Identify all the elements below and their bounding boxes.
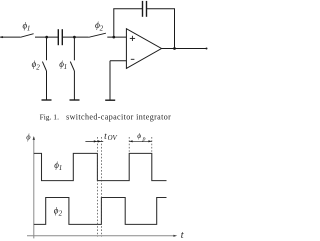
dimension tOV arrow — [85, 140, 103, 142]
input terminal Vin — [1, 36, 3, 38]
dashed line at phi2 rise — [100, 137, 102, 237]
wire feedback down to output node — [174, 9, 176, 49]
wire S2 contact to node C to op-amp — [107, 36, 126, 38]
dashed line at phi1 fall — [96, 137, 98, 237]
dimension phi_p arrow — [129, 140, 152, 142]
dashed line at phi1 second fall — [151, 137, 153, 153]
wire feedback top left — [113, 8, 142, 10]
capacitor C2 left plate — [142, 1, 144, 17]
capacitor C1 left plate — [57, 29, 59, 45]
wire node C up to feedback — [113, 9, 115, 37]
ground 3 — [105, 99, 115, 101]
waveform phi2 — [34, 198, 167, 225]
svg-text:Fig.: Fig. — [40, 113, 52, 122]
capacitor C2 right plate — [146, 1, 148, 17]
wire output — [162, 48, 207, 50]
switch S4 arm (phi1) — [70, 62, 74, 71]
svg-text:ϕ: ϕ — [26, 133, 31, 142]
op-amp minus input marker — [131, 58, 135, 60]
dashed line at phi1 second rise — [128, 137, 130, 153]
node C junction — [112, 36, 115, 39]
capacitor C1 right plate — [61, 29, 63, 45]
op-amp plus input marker — [130, 37, 135, 39]
node A junction — [45, 36, 48, 39]
wire feedback top right — [147, 8, 176, 10]
switch S1 arm (phi1) — [20, 34, 33, 38]
node D output junction — [173, 47, 176, 50]
ground 1 — [42, 99, 52, 101]
axis t (horizontal) — [27, 235, 174, 237]
svg-text:switched-capacitor integrator: switched-capacitor integrator — [66, 113, 171, 122]
wire node B down to switch S4 — [73, 37, 75, 60]
wire minus input down to ground — [109, 61, 111, 100]
op-amp U1 body — [126, 29, 161, 69]
wire node A down to switch S3 — [46, 37, 48, 60]
switch S3 arm (phi2) — [42, 62, 46, 71]
waveform phi1 — [34, 153, 167, 180]
output terminal Vout — [206, 48, 208, 50]
axis phi (vertical) — [33, 137, 35, 238]
svg-text:1.: 1. — [53, 113, 59, 122]
wire S3 to ground — [46, 71, 48, 100]
svg-text:t: t — [181, 230, 184, 241]
node B junction — [73, 36, 76, 39]
wire minus input left — [110, 60, 126, 62]
wire S1 contact to node A to capacitor C1 — [35, 36, 58, 38]
wire input to switch S1 — [0, 36, 20, 38]
wire C1 to node B — [62, 36, 88, 38]
wire S4 to ground — [73, 71, 75, 100]
ground 2 — [70, 99, 80, 101]
switch S2 arm (phi2) — [89, 33, 106, 37]
